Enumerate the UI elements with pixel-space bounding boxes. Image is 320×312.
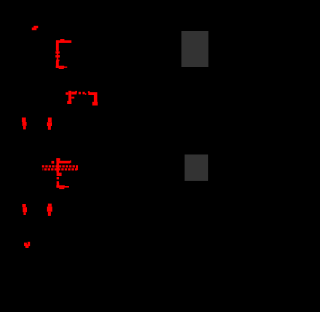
IC U1 xyxy=(181,31,208,67)
resistor R1 xyxy=(55,39,71,69)
resistor R2 xyxy=(51,158,71,189)
net label VCC xyxy=(32,26,38,30)
diode D4 xyxy=(47,204,52,216)
diode D1 xyxy=(22,118,27,130)
node bus end xyxy=(76,166,78,171)
diode D2 xyxy=(47,118,52,130)
wire dashed bus xyxy=(42,166,78,169)
ground xyxy=(24,242,30,248)
IC U2 xyxy=(185,155,209,181)
diode D3 xyxy=(22,204,27,215)
switch S1 xyxy=(66,91,98,106)
